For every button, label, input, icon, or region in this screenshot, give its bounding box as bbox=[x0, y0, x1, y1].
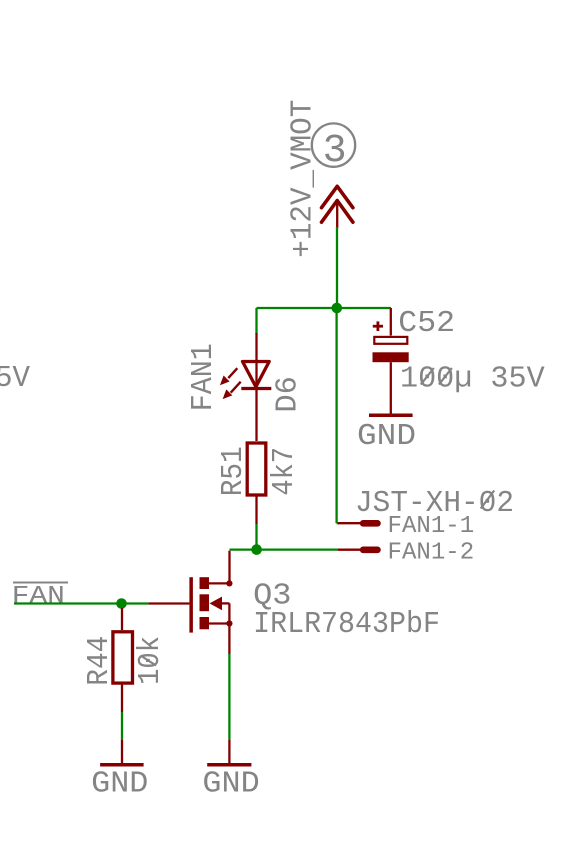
connector pin FAN1-2 bbox=[338, 547, 381, 554]
wire FAN input bbox=[14, 602, 148, 604]
wire corner to FAN1-1 pin bbox=[337, 522, 339, 524]
D6 emission arrow 1 bbox=[220, 368, 237, 385]
sheet connector circle 3 bbox=[312, 123, 355, 174]
ground symbol under Q3 bbox=[207, 763, 251, 767]
svg-text:+12V_VMOT: +12V_VMOT bbox=[286, 100, 321, 258]
slash of zero in 10k label bbox=[141, 656, 157, 666]
wire drain corner to FAN1-2 bbox=[230, 548, 339, 550]
svg-text:R51: R51 bbox=[216, 446, 251, 496]
FAN net label with overline bbox=[12, 582, 68, 611]
svg-text:5V: 5V bbox=[0, 361, 30, 396]
D6 emission arrow 2 bbox=[223, 382, 241, 399]
svg-text:C52: C52 bbox=[398, 306, 455, 341]
LED D6 bbox=[241, 333, 271, 441]
wire horizontal top rail bbox=[257, 307, 392, 309]
node junction 3 bbox=[116, 598, 127, 609]
svg-text:FAN: FAN bbox=[12, 582, 65, 611]
ground symbol under C52 bbox=[369, 413, 413, 417]
svg-text:GND: GND bbox=[357, 419, 416, 454]
svg-text:IRLR7843PbF: IRLR7843PbF bbox=[253, 607, 440, 642]
node junction 1 bbox=[332, 303, 343, 314]
wire from power symbol to junction bbox=[336, 227, 338, 308]
transistor Q3 bbox=[148, 551, 232, 654]
wire junction 1 down to FAN1-1 bbox=[335, 308, 337, 523]
svg-text:GND: GND bbox=[91, 766, 148, 801]
svg-text:FAN1-2: FAN1-2 bbox=[388, 540, 475, 567]
slash of zero in JST-XH-02 label bbox=[481, 491, 495, 509]
capacitor C52 bbox=[373, 308, 409, 414]
power symbol +12V_VMOT bbox=[322, 186, 353, 228]
node junction 2 bbox=[251, 544, 262, 555]
resistor R51 bbox=[247, 443, 266, 524]
resistor R44 bbox=[113, 608, 133, 712]
svg-text:FAN1-1: FAN1-1 bbox=[388, 513, 475, 540]
svg-text:R44: R44 bbox=[82, 636, 117, 686]
svg-text:4k7: 4k7 bbox=[267, 447, 302, 496]
svg-text:10k: 10k bbox=[133, 636, 168, 685]
svg-text:GND: GND bbox=[202, 766, 259, 801]
wire down to D6 bbox=[255, 308, 257, 334]
svg-text:FAN1: FAN1 bbox=[186, 343, 221, 411]
svg-text:100µ 35V: 100µ 35V bbox=[400, 362, 545, 397]
wire Q3 source to ground bbox=[228, 654, 230, 740]
wire R51 to junction 2 bbox=[255, 524, 257, 550]
svg-text:3: 3 bbox=[323, 129, 347, 174]
ground symbol under R44 bbox=[100, 763, 144, 767]
ground pin under Q3 bbox=[228, 740, 230, 763]
slash of zero 2 in C52 value bbox=[439, 368, 452, 385]
connector pin FAN1-1 bbox=[338, 520, 381, 527]
wire R44 to ground bbox=[121, 712, 123, 740]
slash of zero 1 in C52 value bbox=[421, 368, 434, 385]
ground pin under R44 bbox=[121, 740, 123, 763]
svg-text:D6: D6 bbox=[270, 376, 305, 413]
